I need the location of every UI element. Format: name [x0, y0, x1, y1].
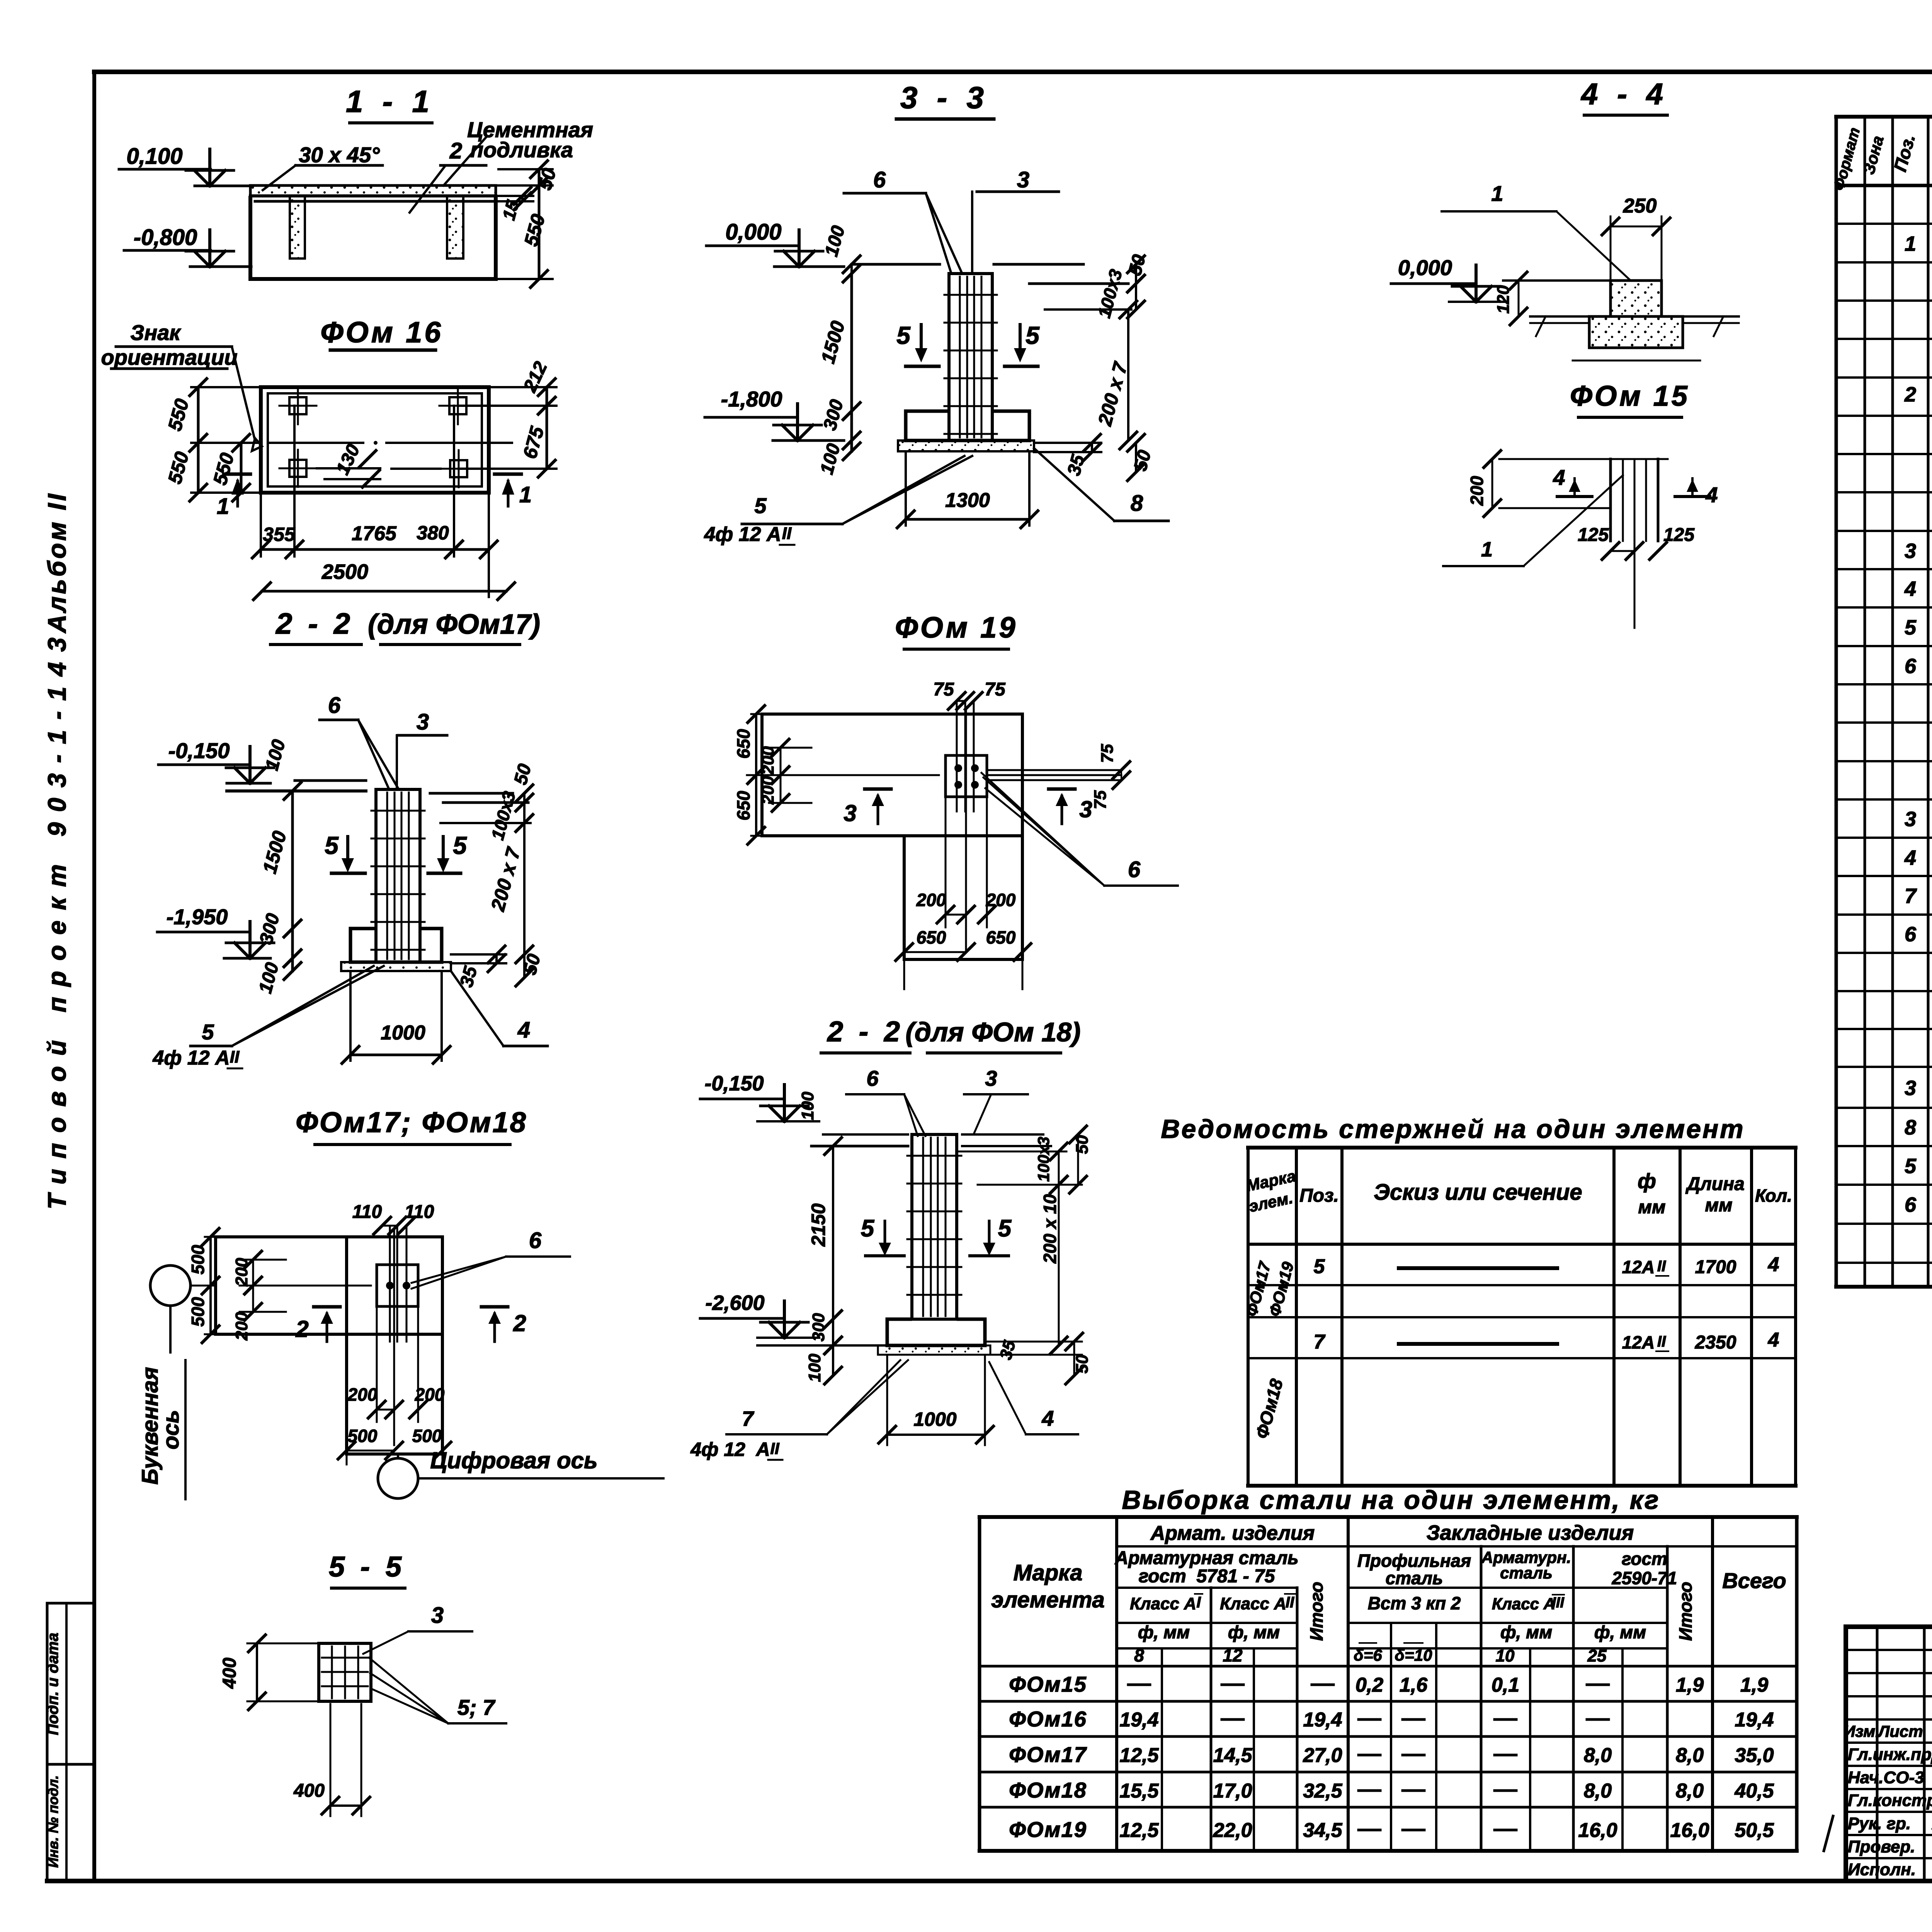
svg-text:12А: 12А: [1622, 1257, 1655, 1277]
svg-text:ФОм 15: ФОм 15: [1570, 380, 1690, 412]
svg-text:-0,800: -0,800: [134, 225, 197, 250]
svg-text:ф, мм: ф, мм: [1500, 1622, 1552, 1642]
svg-text:500: 500: [188, 1245, 208, 1274]
svg-text:3: 3: [1905, 808, 1916, 831]
svg-text:Рук. гр.: Рук. гр.: [1848, 1814, 1911, 1833]
svg-text:5: 5: [325, 832, 339, 859]
svg-text:Класс А: Класс А: [1220, 1594, 1286, 1613]
svg-text:8: 8: [1134, 1645, 1144, 1665]
svg-text:8: 8: [1905, 1116, 1916, 1139]
svg-text:50: 50: [1073, 1354, 1092, 1373]
svg-text:75: 75: [933, 679, 954, 700]
svg-text:ф: ф: [1638, 1170, 1656, 1193]
svg-text:ф, мм: ф, мм: [1138, 1622, 1190, 1642]
svg-text:8: 8: [1131, 491, 1143, 516]
svg-text:650: 650: [733, 791, 753, 820]
svg-text:-1,800: -1,800: [721, 387, 782, 411]
svg-text:355: 355: [263, 524, 296, 545]
svg-text:4ф 12 А: 4ф 12 А: [690, 1439, 770, 1460]
svg-text:19,4: 19,4: [1119, 1709, 1158, 1731]
svg-text:8,0: 8,0: [1584, 1780, 1612, 1802]
svg-text:2590-71: 2590-71: [1612, 1568, 1677, 1588]
svg-text:5: 5: [754, 493, 767, 518]
svg-text:подливка: подливка: [470, 138, 573, 162]
svg-text:7: 7: [742, 1407, 755, 1430]
svg-text:4ф 12 А: 4ф 12 А: [152, 1047, 230, 1069]
svg-text:250: 250: [1623, 195, 1657, 217]
svg-text:1700: 1700: [1695, 1257, 1736, 1277]
svg-text:Закладные изделия: Закладные изделия: [1427, 1521, 1634, 1544]
svg-text:4: 4: [1768, 1329, 1779, 1351]
svg-text:4: 4: [1705, 483, 1718, 507]
svg-text:19,4: 19,4: [1735, 1709, 1774, 1731]
svg-text:II: II: [1657, 1333, 1666, 1350]
svg-text:6: 6: [873, 167, 886, 192]
svg-text:Исполн.: Исполн.: [1848, 1860, 1916, 1879]
svg-text:200: 200: [986, 890, 1016, 910]
svg-text:2: 2: [513, 1310, 526, 1336]
svg-text:5: 5: [896, 321, 911, 349]
svg-text:ІІ: ІІ: [770, 1439, 780, 1458]
svg-text:3: 3: [1905, 539, 1916, 563]
svg-text:2: 2: [295, 1316, 308, 1342]
svg-text:Нач.СО-3: Нач.СО-3: [1848, 1768, 1924, 1787]
svg-text:2: 2: [1904, 383, 1916, 406]
svg-text:650: 650: [986, 927, 1016, 947]
svg-text:Знак: Знак: [130, 320, 181, 345]
svg-text:1,9: 1,9: [1676, 1674, 1704, 1696]
svg-text:ф, мм: ф, мм: [1594, 1622, 1646, 1642]
svg-text:-0,150: -0,150: [168, 738, 230, 763]
svg-text:Всего: Всего: [1722, 1568, 1786, 1593]
svg-text:(для ФОм17): (для ФОм17): [368, 609, 540, 640]
svg-text:5: 5: [1314, 1255, 1325, 1278]
svg-text:200: 200: [232, 1258, 251, 1287]
svg-text:6: 6: [1128, 857, 1141, 882]
svg-text:сталь: сталь: [1386, 1568, 1443, 1588]
svg-text:75: 75: [985, 679, 1006, 700]
svg-text:Длина: Длина: [1685, 1174, 1745, 1194]
svg-text:2150: 2150: [808, 1203, 829, 1247]
svg-text:Армат. изделия: Армат. изделия: [1150, 1522, 1315, 1544]
svg-text:4: 4: [1041, 1406, 1054, 1430]
svg-text:4 - 4: 4 - 4: [1580, 77, 1668, 111]
svg-text:3: 3: [417, 709, 429, 735]
svg-text:12А: 12А: [1622, 1332, 1655, 1352]
svg-text:6: 6: [866, 1066, 879, 1090]
svg-text:0,1: 0,1: [1492, 1674, 1519, 1696]
svg-text:мм: мм: [1638, 1197, 1665, 1218]
svg-text:3: 3: [1017, 167, 1029, 192]
svg-text:1: 1: [1905, 232, 1916, 255]
svg-text:(для ФОм 18): (для ФОм 18): [905, 1017, 1080, 1047]
svg-text:Лист: Лист: [1877, 1722, 1923, 1740]
svg-text:1,9: 1,9: [1740, 1674, 1768, 1696]
svg-text:1: 1: [519, 482, 532, 507]
svg-text:500: 500: [188, 1297, 208, 1327]
svg-text:35,0: 35,0: [1735, 1744, 1774, 1767]
svg-text:40,5: 40,5: [1734, 1780, 1774, 1802]
svg-text:5; 7: 5; 7: [457, 1695, 496, 1719]
svg-text:ФОм 16: ФОм 16: [320, 316, 443, 349]
svg-text:ФОм 19: ФОм 19: [895, 611, 1017, 644]
svg-text:ІІ: ІІ: [1286, 1594, 1294, 1611]
svg-text:5: 5: [1026, 321, 1040, 349]
svg-text:1: 1: [1481, 538, 1493, 561]
svg-text:ориентации: ориентации: [101, 345, 237, 369]
svg-text:15,5: 15,5: [1119, 1780, 1159, 1802]
svg-text:650: 650: [733, 729, 753, 759]
svg-text:5: 5: [1905, 616, 1917, 639]
svg-text:200: 200: [1467, 476, 1487, 506]
svg-text:1000: 1000: [381, 1022, 425, 1044]
svg-text:400: 400: [219, 1658, 240, 1689]
svg-text:3: 3: [844, 800, 856, 826]
svg-text:Итого: Итого: [1306, 1582, 1327, 1641]
svg-text:400: 400: [293, 1781, 325, 1801]
svg-text:сталь: сталь: [1500, 1564, 1553, 1582]
svg-text:Цифровая ось: Цифровая ось: [430, 1447, 597, 1473]
svg-text:32,5: 32,5: [1303, 1780, 1342, 1802]
svg-text:2 - 2: 2 - 2: [275, 607, 354, 640]
svg-text:II: II: [1657, 1258, 1666, 1275]
svg-text:200: 200: [759, 746, 777, 775]
svg-text:3: 3: [431, 1603, 444, 1628]
svg-text:Марка: Марка: [1013, 1560, 1082, 1585]
svg-text:1000: 1000: [913, 1408, 956, 1430]
svg-text:Подп. и дата: Подп. и дата: [44, 1633, 61, 1735]
svg-text:12: 12: [1223, 1645, 1243, 1665]
svg-text:0,000: 0,000: [1398, 255, 1452, 280]
svg-text:200: 200: [759, 776, 777, 805]
svg-text:δ=10: δ=10: [1395, 1646, 1432, 1664]
svg-text:6: 6: [529, 1228, 542, 1253]
svg-text:ФОм18: ФОм18: [1009, 1778, 1087, 1802]
svg-text:гост 5781 - 75: гост 5781 - 75: [1139, 1566, 1276, 1587]
svg-text:Изм.: Изм.: [1844, 1722, 1880, 1740]
svg-text:элемента: элемента: [991, 1587, 1105, 1612]
svg-text:ІІІ: ІІІ: [1552, 1595, 1565, 1611]
svg-text:ось: ось: [158, 1410, 184, 1449]
svg-text:8,0: 8,0: [1584, 1744, 1612, 1767]
svg-text:500: 500: [348, 1426, 378, 1446]
svg-text:ІІ: ІІ: [782, 524, 792, 543]
svg-text:4: 4: [1904, 846, 1916, 869]
svg-text:500: 500: [412, 1426, 442, 1446]
svg-text:2: 2: [449, 138, 462, 163]
svg-text:27,0: 27,0: [1303, 1744, 1342, 1767]
svg-text:200: 200: [347, 1384, 378, 1405]
svg-text:6: 6: [1905, 923, 1917, 946]
svg-text:50,5: 50,5: [1735, 1819, 1774, 1842]
svg-text:17,0: 17,0: [1213, 1780, 1252, 1802]
svg-text:Ведомость стержней на один эле: Ведомость стержней на один элемент: [1161, 1114, 1745, 1144]
svg-text:Провер.: Провер.: [1848, 1837, 1915, 1856]
svg-text:16,0: 16,0: [1578, 1819, 1617, 1842]
svg-text:-0,150: -0,150: [704, 1072, 764, 1095]
svg-text:200: 200: [916, 890, 946, 910]
svg-text:ІІ: ІІ: [230, 1048, 240, 1066]
svg-text:ф, мм: ф, мм: [1228, 1622, 1280, 1642]
svg-text:1 - 1: 1 - 1: [346, 84, 435, 119]
svg-text:ФОм15: ФОм15: [1009, 1672, 1087, 1696]
svg-text:110: 110: [405, 1202, 434, 1222]
svg-text:2 - 2: 2 - 2: [827, 1015, 904, 1048]
svg-text:Вст 3 кп 2: Вст 3 кп 2: [1368, 1593, 1461, 1613]
svg-text:гост: гост: [1622, 1549, 1667, 1569]
svg-text:Класс А: Класс А: [1492, 1595, 1555, 1613]
svg-text:Итого: Итого: [1675, 1582, 1696, 1641]
svg-text:Гл.констр.: Гл.констр.: [1848, 1791, 1932, 1810]
svg-text:3: 3: [985, 1066, 997, 1090]
svg-text:1,6: 1,6: [1400, 1674, 1428, 1696]
svg-text:Инв. № подл.: Инв. № подл.: [45, 1775, 61, 1867]
svg-text:2500: 2500: [321, 560, 368, 583]
svg-text:200: 200: [415, 1384, 445, 1405]
svg-text:1765: 1765: [352, 522, 397, 545]
svg-text:2350: 2350: [1695, 1332, 1736, 1353]
svg-text:Кол.: Кол.: [1755, 1185, 1792, 1206]
svg-text:-1,950: -1,950: [167, 905, 228, 929]
svg-text:75: 75: [1091, 790, 1110, 809]
svg-text:ФОм16: ФОм16: [1009, 1707, 1087, 1731]
svg-text:Эскиз или сечение: Эскиз или сечение: [1374, 1180, 1582, 1205]
svg-text:4: 4: [1904, 577, 1916, 600]
svg-text:ФОм17: ФОм17: [1009, 1742, 1087, 1767]
svg-text:3 - 3: 3 - 3: [900, 80, 989, 115]
svg-text:0,100: 0,100: [126, 144, 182, 169]
svg-text:14,5: 14,5: [1213, 1744, 1252, 1767]
svg-text:1300: 1300: [945, 489, 990, 512]
svg-text:І: І: [1196, 1594, 1201, 1611]
svg-text:ФОм19: ФОм19: [1009, 1817, 1087, 1842]
svg-text:380: 380: [417, 522, 449, 544]
svg-text:-2,600: -2,600: [705, 1291, 764, 1315]
svg-text:0,000: 0,000: [725, 219, 781, 245]
svg-text:5 - 5: 5 - 5: [329, 1551, 405, 1583]
svg-text:3: 3: [1079, 796, 1092, 822]
svg-text:3: 3: [1905, 1077, 1916, 1100]
svg-text:5: 5: [1905, 1155, 1917, 1178]
svg-text:110: 110: [352, 1202, 382, 1222]
svg-text:5: 5: [861, 1215, 875, 1242]
svg-text:δ=6: δ=6: [1354, 1646, 1382, 1664]
svg-text:6: 6: [328, 693, 341, 718]
svg-text:0,2: 0,2: [1355, 1674, 1383, 1696]
svg-text:5: 5: [998, 1215, 1012, 1242]
svg-text:ФОм17; ФОм18: ФОм17; ФОм18: [296, 1106, 527, 1138]
svg-text:4: 4: [1768, 1253, 1779, 1276]
svg-text:100х3: 100х3: [1034, 1137, 1053, 1182]
svg-text:4: 4: [1553, 465, 1565, 490]
svg-text:4ф 12 А: 4ф 12 А: [704, 523, 781, 546]
svg-text:12,5: 12,5: [1119, 1819, 1159, 1842]
svg-text:6: 6: [1905, 655, 1917, 678]
svg-text:Выборка стали на один элемент,: Выборка стали на один элемент, кг: [1122, 1485, 1660, 1515]
svg-text:Поз.: Поз.: [1299, 1185, 1339, 1206]
svg-text:6: 6: [1905, 1193, 1917, 1216]
svg-text:19,4: 19,4: [1303, 1709, 1342, 1731]
svg-text:5: 5: [453, 832, 467, 859]
svg-text:Класс А: Класс А: [1130, 1594, 1196, 1613]
svg-text:8,0: 8,0: [1676, 1744, 1704, 1767]
svg-text:1: 1: [217, 494, 229, 519]
svg-text:Гл.инж.пр: Гл.инж.пр: [1848, 1745, 1932, 1764]
svg-text:30 х 45°: 30 х 45°: [299, 143, 380, 167]
svg-text:100: 100: [805, 1354, 824, 1382]
svg-text:10: 10: [1496, 1646, 1515, 1665]
svg-text:200: 200: [232, 1312, 251, 1341]
svg-text:мм: мм: [1705, 1195, 1732, 1216]
svg-text:8,0: 8,0: [1676, 1780, 1704, 1802]
svg-text:200 х 10: 200 х 10: [1040, 1194, 1060, 1264]
svg-text:7: 7: [1905, 884, 1917, 908]
svg-text:100: 100: [798, 1092, 817, 1120]
svg-text:7: 7: [1314, 1331, 1326, 1353]
svg-text:25: 25: [1587, 1646, 1607, 1665]
svg-text:650: 650: [917, 927, 946, 947]
svg-text:75: 75: [1098, 744, 1117, 763]
svg-text:12,5: 12,5: [1119, 1744, 1159, 1767]
svg-text:Арматурная сталь: Арматурная сталь: [1114, 1548, 1298, 1568]
svg-text:34,5: 34,5: [1303, 1819, 1342, 1842]
svg-text:16,0: 16,0: [1670, 1819, 1709, 1842]
svg-text:4: 4: [517, 1017, 530, 1043]
svg-text:5: 5: [202, 1020, 214, 1044]
svg-text:22,0: 22,0: [1213, 1819, 1252, 1842]
svg-text:125: 125: [1578, 525, 1609, 545]
svg-text:1: 1: [1491, 181, 1503, 206]
